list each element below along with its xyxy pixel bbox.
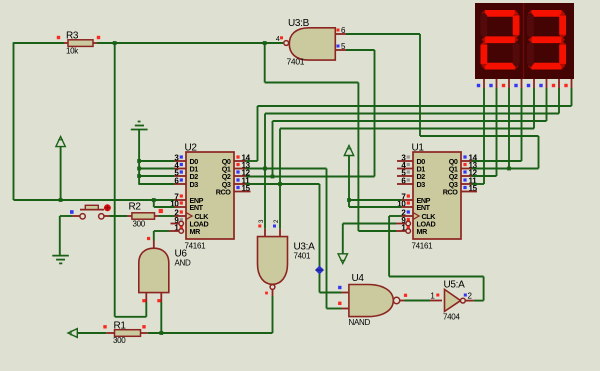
U1 Q3 wire to display — [461, 88, 484, 184]
wire button to ground — [59, 216, 61, 255]
U1 D0-D3 stubs unconnected — [397, 161, 413, 184]
svg-text:D3: D3 — [417, 180, 426, 189]
wire U3:B pin6 to U1 Q1 net — [346, 34, 539, 169]
wire U6 input B riser — [160, 302, 162, 333]
U2 MR bubble — [179, 229, 184, 234]
wire R2 to U2 CLK — [155, 209, 187, 216]
svg-text:7401: 7401 — [294, 252, 311, 261]
svg-text:D3: D3 — [190, 180, 199, 189]
U1 RCO stub unconnected — [461, 191, 477, 193]
wire U1 MR from reset line — [358, 230, 406, 232]
counter U1 74161 body — [412, 143, 462, 251]
svg-text:74161: 74161 — [412, 242, 434, 251]
svg-text:RCO: RCO — [216, 188, 232, 197]
svg-text:74161: 74161 — [185, 242, 207, 251]
resistor R1 — [103, 321, 145, 346]
wire reset path from output node down to U1 MR — [265, 42, 359, 231]
resistor R2 — [129, 202, 155, 229]
wire arrow to R1 — [77, 332, 114, 334]
svg-text:U1: U1 — [412, 143, 425, 154]
svg-text:10k: 10k — [66, 47, 79, 56]
svg-text:R1: R1 — [114, 321, 127, 332]
U2 Q0 wire to display via bus — [234, 88, 572, 161]
input terminal arrow at R1 — [68, 329, 77, 338]
7-segment display block (2 digits showing 23) — [475, 3, 574, 79]
wire U3:B pin5 to U2 Q2 net — [346, 50, 375, 177]
svg-text:7404: 7404 — [443, 313, 460, 322]
svg-text:R2: R2 — [129, 202, 142, 213]
U2 Q3 wire to display bus, U3:A and U4 — [234, 88, 534, 293]
power terminal arrow P2 feeding U1 ENP ENT — [344, 146, 413, 208]
svg-text:NAND: NAND — [349, 318, 371, 327]
wire junction dots — [59, 41, 511, 335]
wire U3:A output down to R1 node — [272, 296, 274, 333]
svg-text:7401: 7401 — [287, 57, 305, 67]
wire ENP rail — [14, 199, 175, 201]
svg-text:300: 300 — [133, 220, 146, 229]
svg-text:R3: R3 — [66, 31, 79, 42]
U2 ENT link from ENP rail — [154, 200, 186, 207]
U2 Q2 wire to display bus and U3:B pin5 — [234, 88, 547, 177]
nand gate U3:A (rotated down) — [258, 219, 316, 296]
wires U2 D0-D3 to ground rail — [139, 161, 186, 184]
display pin state dots — [477, 84, 568, 87]
wire R1 to U3:A output node — [141, 332, 273, 334]
U2 Q1 wire to display bus and U3:A and U4 — [234, 88, 559, 309]
U1 LOAD bubble — [406, 221, 411, 226]
and gate U6 — [139, 237, 191, 302]
wire U5 output loop to U1 CLK — [389, 277, 484, 301]
resistor R3 — [57, 31, 100, 56]
wire R3 to U3:B output — [97, 42, 283, 44]
U1 Q0 wire to display — [461, 88, 522, 161]
svg-text:RCO: RCO — [443, 188, 459, 197]
wire left vertical from R3 to ENP rail — [13, 42, 15, 200]
svg-text:ENT: ENT — [190, 203, 204, 212]
power terminal arrow P1 — [56, 137, 65, 201]
wire U6 output to U2 MR — [154, 231, 179, 241]
ground for U2 data inputs — [131, 122, 148, 185]
U1 MR bubble — [406, 229, 411, 234]
nand gate U4 — [338, 273, 407, 327]
inverter U5:A — [430, 280, 472, 322]
wire button to R2 — [104, 215, 132, 217]
wire R3 output node horizontal — [14, 42, 65, 44]
U2 LOAD stub unconnected — [171, 221, 184, 226]
U1 Q2 wire to display — [461, 88, 497, 176]
counter U2 74161 body — [185, 143, 235, 251]
nand gate U3:B — [276, 18, 346, 67]
svg-text:AND: AND — [175, 259, 192, 268]
svg-text:MR: MR — [190, 227, 202, 236]
wire U4 output to U5 input — [405, 300, 443, 302]
svg-text:ENT: ENT — [417, 203, 431, 212]
U1 pin numbers and dots — [397, 154, 477, 233]
svg-text:U4: U4 — [352, 273, 365, 284]
ground under button — [52, 256, 69, 264]
push button SW — [60, 204, 111, 219]
svg-text:300: 300 — [113, 336, 126, 345]
wire U1 CLK from U5 loop — [389, 216, 413, 277]
U2 RCO stub unconnected — [234, 191, 251, 193]
svg-text:U5:A: U5:A — [444, 280, 466, 291]
display pin stubs — [484, 79, 572, 89]
svg-text:MR: MR — [417, 227, 429, 236]
wire reset node vertical x=114.7 — [114, 42, 116, 317]
U2 pin numbers and dots — [170, 154, 250, 233]
U1 Q1 wire to display and U3:B pin6 net — [461, 88, 539, 169]
svg-text:U2: U2 — [185, 143, 198, 154]
svg-text:U3:B: U3:B — [288, 18, 310, 29]
probe diamond on Q3 wire — [315, 266, 324, 275]
wire to U6 input A — [115, 302, 147, 317]
svg-text:4: 4 — [276, 36, 280, 43]
wire U1 LOAD to terminal arrow down — [338, 224, 406, 264]
